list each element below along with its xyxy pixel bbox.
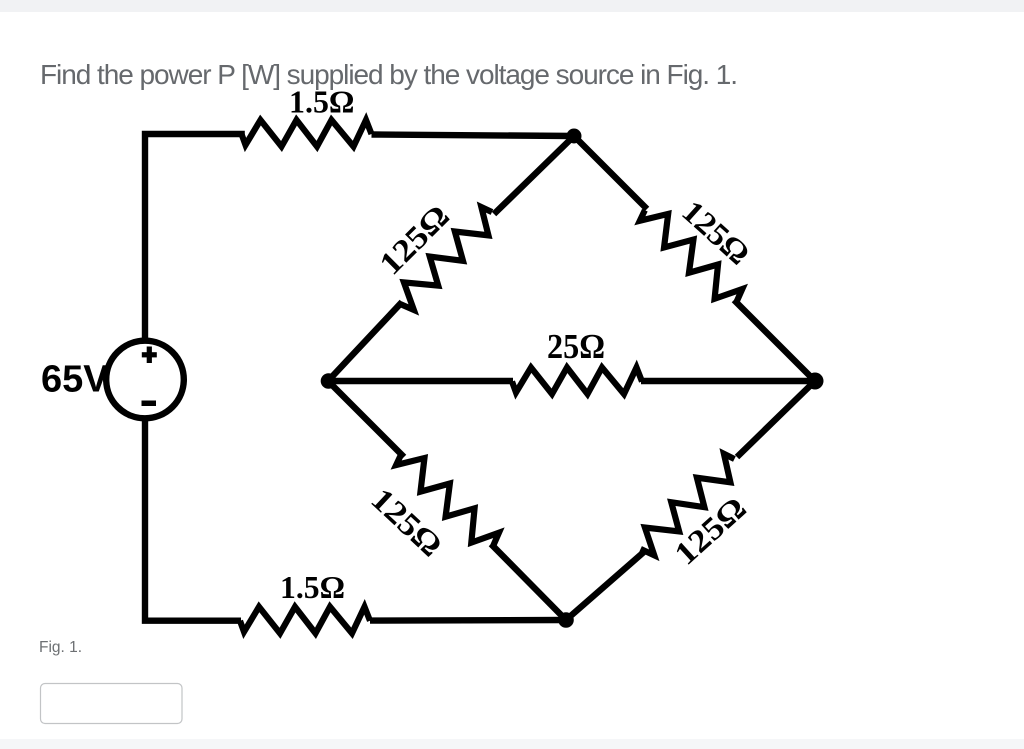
minus polarity mark bbox=[142, 401, 157, 407]
wire: left vertical (source to top-left corner) bbox=[145, 134, 245, 339]
svg-text:Find the power P [W] supplied: Find the power P [W] supplied by the vol… bbox=[40, 59, 737, 90]
wire: bottom horizontal B to source bbox=[370, 617, 566, 624]
wire: diagonal T to L bbox=[494, 136, 574, 214]
node T junction dot bbox=[567, 129, 582, 144]
bottom gray strip bbox=[0, 739, 1024, 749]
wire: middle horizontal L to R bbox=[328, 378, 815, 384]
answer input box bbox=[41, 684, 183, 724]
voltage source V1 circle bbox=[106, 341, 184, 419]
svg-text:1.5Ω: 1.5Ω bbox=[289, 85, 355, 120]
node L junction dot bbox=[321, 373, 337, 389]
resistor 125ohm bottom-left bbox=[392, 445, 503, 556]
svg-text:65V: 65V bbox=[41, 359, 109, 401]
wire: diagonal T to R bbox=[574, 136, 647, 209]
plus polarity mark bbox=[142, 352, 157, 357]
resistor 1.5ohm bottom bbox=[240, 607, 370, 634]
node B junction dot bbox=[558, 612, 574, 628]
top gray strip bbox=[0, 0, 1024, 12]
wire: top right segment to node T bbox=[372, 135, 575, 137]
wire: diagonal L to B bbox=[328, 381, 404, 457]
node R junction dot bbox=[807, 373, 824, 390]
svg-text:1.5Ω: 1.5Ω bbox=[280, 569, 345, 605]
resistor 125ohm bottom-right bbox=[632, 450, 744, 559]
resistor 25ohm middle bbox=[512, 368, 642, 395]
wire: diagonal R to B bbox=[737, 381, 815, 457]
svg-text:Fig. 1.: Fig. 1. bbox=[39, 639, 82, 656]
resistor R1 1.5ohm top bbox=[242, 120, 372, 147]
svg-text:25Ω: 25Ω bbox=[547, 328, 605, 366]
resistor 125ohm top-right bbox=[636, 200, 746, 311]
resistor 125ohm top-left bbox=[391, 203, 502, 314]
wire: left vertical (source bottom to bottom-left corner) bbox=[145, 417, 241, 621]
